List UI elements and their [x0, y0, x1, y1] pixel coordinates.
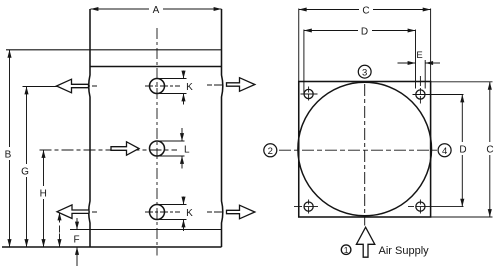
top hole centerline: [145, 85, 180, 87]
outline arrow left top (exhaust): [57, 79, 89, 93]
C left extension line: [298, 9, 300, 82]
svg-text:Air Supply: Air Supply: [379, 245, 430, 257]
svg-text:K: K: [186, 208, 193, 219]
svg-text:3: 3: [362, 67, 367, 78]
svg-text:2: 2: [268, 146, 273, 157]
svg-text:K: K: [186, 82, 193, 93]
label E: [416, 49, 424, 59]
port 1 circled: [341, 245, 351, 255]
centerline tick right edge top row: [207, 84, 225, 86]
svg-text:B: B: [5, 150, 12, 161]
plate square: [299, 82, 431, 218]
svg-text:D: D: [459, 145, 466, 156]
E dim arrow left part: [398, 62, 416, 64]
D left extension line: [303, 30, 305, 95]
port 4 circled: [438, 144, 451, 157]
svg-text:F: F: [73, 235, 79, 246]
G top extension line: [23, 86, 58, 88]
horizontal centerline of right view: [279, 149, 438, 151]
dimension G: [26, 87, 28, 248]
plate bottom edge extension right: [431, 216, 493, 218]
outline arrow left bottom (exhaust): [57, 205, 89, 219]
body left edge with notches: [89, 9, 90, 247]
dimension C top: [299, 9, 431, 11]
dimension B: [9, 50, 11, 247]
dimension F upper arrow: [76, 218, 78, 230]
C right extension line: [430, 9, 432, 82]
middle hole centerline (H extension): [40, 149, 178, 151]
port 2 circled: [264, 144, 277, 157]
air supply outline arrow (pointing up): [356, 227, 374, 257]
svg-text:L: L: [184, 144, 190, 155]
top flange bottom line: [90, 66, 222, 68]
hole K top: [150, 79, 165, 94]
label F: [72, 232, 81, 244]
dimension D right side: [461, 95, 463, 207]
E right extension line: [424, 60, 426, 89]
dimension D top: [304, 30, 416, 32]
outline arrow right top (exhaust): [227, 78, 255, 92]
dimension A line: [91, 8, 222, 10]
hole L middle: [150, 141, 165, 156]
hole K bottom: [150, 205, 165, 220]
svg-text:I: I: [58, 225, 61, 236]
svg-text:C: C: [362, 6, 369, 17]
dimension C right side: [489, 82, 491, 217]
dimension F lower arrow: [76, 247, 78, 266]
svg-text:4: 4: [442, 146, 447, 157]
bottom hole centerline: [145, 211, 180, 213]
corner hole top-right: [416, 90, 425, 99]
dimension I: [59, 213, 61, 248]
centerline tick left edge top row: [84, 85, 99, 87]
vertical centerline of left view: [156, 28, 158, 256]
svg-text:D: D: [361, 27, 368, 38]
top flange line (B extension to left): [6, 49, 222, 51]
corner hole top-left: [304, 89, 313, 98]
centerline tick left edge bottom row: [84, 211, 99, 213]
svg-text:E: E: [416, 50, 422, 61]
outline arrow right bottom (exhaust): [227, 205, 255, 219]
port 3 circled: [358, 65, 371, 78]
dimension H: [43, 150, 45, 247]
plate top edge extension right: [431, 81, 493, 83]
vertical centerline of right view: [364, 84, 366, 226]
bottom flange top line: [70, 229, 222, 231]
main circle: [298, 82, 432, 216]
svg-text:A: A: [153, 5, 160, 16]
svg-text:G: G: [21, 167, 29, 178]
E dim arrow right part: [425, 62, 440, 64]
D right / E left extension line: [415, 30, 417, 89]
corner hole bottom-right: [416, 202, 425, 211]
centerline tick right edge bottom row: [207, 211, 225, 213]
svg-text:H: H: [40, 189, 47, 200]
svg-text:C: C: [486, 145, 493, 156]
body bottom edge + baseline extension: [2, 246, 222, 248]
body right edge with notches: [222, 9, 223, 247]
corner hole bottom-left: [304, 202, 313, 211]
outline arrow middle (inlet, pointing right): [111, 142, 139, 155]
svg-text:1: 1: [344, 245, 349, 255]
